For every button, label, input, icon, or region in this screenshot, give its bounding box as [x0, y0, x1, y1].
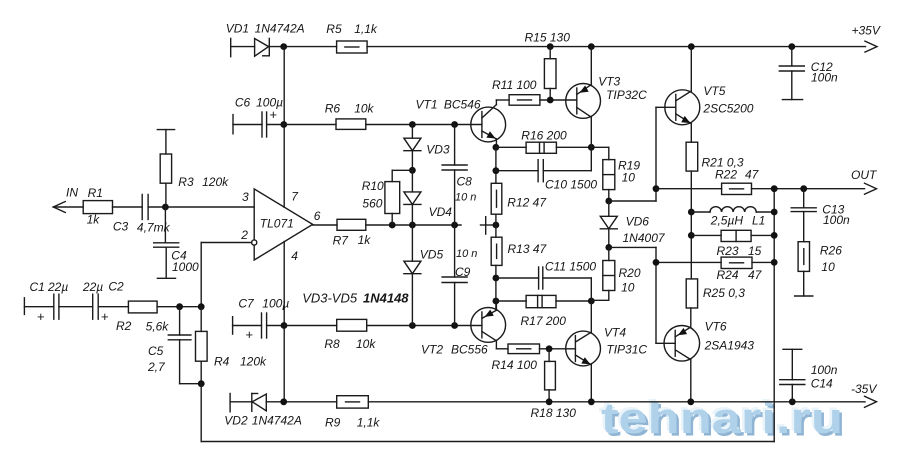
transistor VT6 2SA1943 — [664, 308, 700, 402]
connector stub to R12/R13 midpoint — [481, 217, 496, 234]
svg-text:7: 7 — [291, 190, 299, 204]
svg-text:47: 47 — [745, 168, 760, 182]
node pin4 column rail — [280, 398, 287, 405]
svg-text:C10 1500: C10 1500 — [545, 178, 597, 192]
svg-text:VD2: VD2 — [224, 414, 248, 428]
resistor R6 10k — [284, 119, 482, 129]
node VT1 emitter / R16 — [493, 144, 500, 151]
svg-text:1000: 1000 — [172, 260, 199, 274]
svg-text:10: 10 — [622, 171, 636, 185]
node R15 top — [547, 43, 554, 50]
svg-text:1N4007: 1N4007 — [623, 231, 666, 245]
svg-text:100n: 100n — [811, 71, 838, 85]
svg-text:1N4148: 1N4148 — [363, 291, 409, 306]
svg-text:1N4742A: 1N4742A — [252, 414, 302, 428]
svg-text:C11 1500: C11 1500 — [545, 260, 596, 274]
svg-text:R13 47: R13 47 — [508, 242, 548, 256]
svg-text:R14 100: R14 100 — [492, 358, 538, 372]
zener diode VD2 1N4742A — [230, 394, 266, 412]
node OUT/C13 — [771, 185, 778, 192]
svg-text:VT3: VT3 — [598, 75, 620, 89]
resistor R18 130 — [545, 349, 556, 402]
wire pin 2 to feedback node — [201, 243, 251, 307]
svg-text:TIP31C: TIP31C — [606, 343, 647, 357]
svg-text:IN: IN — [66, 186, 78, 200]
+35V terminal arrow — [865, 41, 877, 52]
resistor R2 5,6k — [128, 301, 201, 313]
node C9 bottom — [451, 322, 458, 329]
node VD6 bottom / VT6 base — [605, 244, 612, 251]
svg-text:10 n: 10 n — [455, 192, 476, 204]
node C14 rail — [789, 398, 796, 405]
node VD4/VD5 junction — [409, 222, 416, 229]
node C7/R8 junction — [281, 322, 288, 329]
node R11/R15/VT3 base — [547, 97, 554, 104]
svg-text:R8: R8 — [324, 337, 340, 351]
svg-text:R24: R24 — [717, 268, 739, 282]
svg-text:2,7: 2,7 — [147, 360, 166, 374]
node C5 top — [176, 303, 183, 310]
resistor R5 1,1k — [337, 41, 368, 53]
capacitor C7 100u — [233, 313, 284, 338]
svg-text:10 n: 10 n — [456, 248, 477, 260]
resistor R16 200 — [496, 142, 591, 153]
node R12/R13 midpoint — [493, 222, 500, 229]
svg-text:100n: 100n — [823, 213, 850, 227]
svg-text:R10: R10 — [362, 179, 384, 193]
svg-text:R17 200: R17 200 — [521, 314, 567, 328]
svg-text:3: 3 — [242, 190, 249, 204]
capacitor C10 1500 — [496, 147, 591, 181]
node VT6 collector rail — [687, 398, 694, 405]
svg-text:C3: C3 — [113, 220, 129, 234]
resistor R19 10 — [591, 147, 615, 201]
transistor VT1 BC546 — [471, 100, 509, 147]
resistor R21 0,3 — [686, 142, 698, 279]
node VD5 bottom — [409, 322, 416, 329]
svg-text:C14: C14 — [811, 377, 833, 391]
node R14/R18/VT4 base — [546, 345, 553, 352]
svg-text:10k: 10k — [356, 337, 376, 351]
capacitor C1 22u — [24, 294, 59, 319]
svg-text:VD1: VD1 — [226, 22, 249, 36]
svg-text:VD4: VD4 — [429, 205, 453, 219]
node R24 left / VT6 base — [653, 259, 660, 266]
svg-text:C2: C2 — [108, 280, 124, 294]
node VT4 emitter rail — [588, 398, 595, 405]
transistor VT4 TIP31C — [566, 301, 601, 402]
node C10 left — [493, 167, 500, 174]
svg-text:VT4: VT4 — [604, 326, 626, 340]
transistor VT2 BC556 — [471, 301, 508, 349]
wire pin 7 to +rail — [283, 47, 285, 208]
svg-text:C8: C8 — [457, 175, 473, 189]
wire — [113, 206, 143, 208]
svg-text:BC546: BC546 — [444, 98, 481, 112]
resistor R10 560 — [385, 170, 413, 225]
-35V terminal arrow — [865, 396, 877, 407]
svg-text:R15 130: R15 130 — [525, 31, 571, 45]
svg-text:R22: R22 — [715, 168, 737, 182]
resistor R3 120k — [157, 130, 174, 207]
svg-text:C1: C1 — [30, 280, 45, 294]
node VD1/R5 junction — [280, 43, 287, 50]
watermark tehnari.ru — [599, 392, 846, 446]
wire pin 4 to -rail — [283, 242, 285, 402]
svg-text:4,7mk: 4,7mk — [137, 221, 171, 235]
capacitor C4 1000 — [154, 207, 179, 278]
node C12 rail — [788, 43, 795, 50]
transistor VT5 2SC5200 — [665, 47, 700, 143]
resistor R23 15 — [691, 230, 774, 241]
svg-text:R2: R2 — [116, 319, 132, 333]
svg-text:R9: R9 — [325, 416, 341, 430]
resistor R11 100 — [509, 95, 577, 106]
zener diode VD1 1N4742A — [231, 38, 270, 56]
svg-text:BC556: BC556 — [451, 343, 488, 357]
node VD3/VD4 junction — [409, 167, 416, 174]
svg-text:10: 10 — [821, 260, 835, 274]
capacitor C12 100n — [779, 47, 804, 100]
svg-text:R7: R7 — [333, 234, 350, 248]
capacitor C5 2,7 — [168, 307, 201, 384]
node VT3 emitter rail — [588, 43, 595, 50]
svg-text:100n: 100n — [811, 363, 838, 377]
svg-text:TIP32C: TIP32C — [606, 88, 647, 102]
resistor R7 1k — [313, 219, 461, 230]
svg-text:6: 6 — [314, 209, 321, 223]
node R10 bottom — [389, 222, 396, 229]
inductor L1 2,5uH — [691, 207, 774, 212]
svg-text:R3: R3 — [178, 175, 194, 189]
node VT5 base / OUT row — [653, 185, 660, 192]
svg-text:C5: C5 — [148, 344, 164, 358]
resistor R20 10 — [591, 247, 615, 300]
svg-text:+35V: +35V — [852, 24, 881, 38]
node R18 rail — [546, 398, 553, 405]
resistor R1 1k — [83, 201, 112, 214]
svg-text:15: 15 — [748, 244, 762, 258]
svg-text:L1: L1 — [752, 214, 765, 228]
node VT2 emitter / R17 — [493, 298, 500, 305]
svg-text:R4: R4 — [214, 355, 230, 369]
capacitor C8 10n — [442, 125, 467, 226]
svg-text:1k: 1k — [358, 233, 372, 247]
svg-text:+: + — [37, 309, 45, 324]
resistor R13 47 — [491, 225, 502, 310]
resistor R17 200 — [496, 295, 591, 307]
svg-text:R11 100: R11 100 — [492, 78, 537, 92]
node R23 left — [688, 232, 695, 239]
svg-text:VT6: VT6 — [705, 320, 727, 334]
node R2/R4/pin2 — [198, 303, 205, 310]
feedback wire OUT to input stage — [201, 189, 774, 442]
wire to pin 3 — [148, 206, 254, 208]
svg-text:2SA1943: 2SA1943 — [704, 339, 755, 353]
svg-text:VD6: VD6 — [626, 215, 650, 229]
svg-text:VT5: VT5 — [703, 84, 725, 98]
svg-text:VD5: VD5 — [420, 248, 444, 262]
capacitor C6 100u — [233, 112, 284, 137]
svg-text:R5: R5 — [326, 22, 342, 36]
svg-text:C6: C6 — [235, 96, 251, 110]
svg-text:120k: 120k — [202, 175, 229, 189]
svg-text:100µ: 100µ — [262, 297, 289, 311]
svg-text:R1: R1 — [88, 186, 103, 200]
capacitor C3 4,7mk — [142, 195, 148, 220]
svg-text:+: + — [101, 309, 109, 324]
svg-text:10: 10 — [621, 281, 635, 295]
capacitor C11 1500 — [496, 267, 591, 301]
svg-text:VD3-VD5: VD3-VD5 — [302, 291, 358, 306]
node VT5 collector rail — [688, 43, 695, 50]
diode VD6 1N4007 — [600, 201, 617, 247]
wire — [269, 46, 865, 48]
svg-text:C9: C9 — [455, 265, 471, 279]
svg-text:2: 2 — [240, 228, 248, 242]
resistor R9 1,1k — [337, 396, 369, 408]
resistor R26 10 — [795, 242, 813, 296]
svg-text:TL071: TL071 — [260, 217, 294, 231]
svg-text:R20: R20 — [619, 266, 641, 280]
node C11 left — [493, 275, 500, 282]
wire — [609, 189, 656, 201]
svg-text:VT2: VT2 — [421, 343, 443, 357]
wire VT6 base — [656, 262, 675, 343]
transistor VT3 TIP32C — [566, 47, 601, 148]
svg-text:VD3: VD3 — [426, 143, 450, 157]
svg-text:R18 130: R18 130 — [531, 406, 577, 420]
node C13 top — [800, 185, 807, 192]
diode VD3 1N4148 — [404, 125, 421, 171]
svg-text:47: 47 — [748, 268, 763, 282]
svg-text:1,1k: 1,1k — [354, 22, 378, 36]
wire VT5 base — [656, 107, 676, 188]
resistor R15 130 — [544, 47, 556, 100]
node R3/C4 junction — [162, 204, 169, 211]
resistor R12 47 — [491, 147, 502, 225]
svg-text:1k: 1k — [87, 213, 101, 227]
OUT terminal arrow — [865, 183, 877, 194]
svg-text:R26: R26 — [820, 244, 842, 258]
input terminal IN — [53, 202, 83, 213]
resistor R8 10k — [284, 319, 482, 331]
node R23 right — [771, 232, 778, 239]
svg-text:+: + — [270, 107, 278, 122]
svg-text:R16 200: R16 200 — [521, 129, 567, 143]
resistor R25 0,3 — [686, 279, 697, 308]
resistor R24 47 — [656, 257, 774, 268]
svg-text:2,5µH: 2,5µH — [710, 214, 744, 228]
capacitor C9 10n — [442, 225, 467, 326]
node R17/C11/VT4 coll — [588, 298, 595, 305]
node C8/C9 junction — [451, 222, 458, 229]
svg-text:OUT: OUT — [851, 168, 878, 182]
svg-text:-35V: -35V — [851, 382, 877, 396]
svg-text:120k: 120k — [240, 355, 267, 369]
svg-text:R6: R6 — [325, 102, 341, 116]
svg-text:R12 47: R12 47 — [507, 196, 547, 210]
svg-text:22µ: 22µ — [82, 280, 103, 294]
svg-text:5,6k: 5,6k — [146, 320, 170, 334]
op-amp U1 TL071 — [252, 189, 313, 260]
capacitor C13 100n — [791, 189, 816, 242]
node C6/R6 junction — [280, 121, 287, 128]
svg-text:2SC5200: 2SC5200 — [702, 102, 753, 116]
svg-text:+: + — [246, 327, 254, 342]
svg-text:22µ: 22µ — [47, 280, 68, 294]
resistor R4 120k — [196, 307, 208, 384]
node R19 bottom / VT5 base — [605, 198, 612, 205]
svg-text:1,1k: 1,1k — [357, 416, 381, 430]
svg-text:R23: R23 — [717, 244, 739, 258]
resistor R14 100 — [508, 344, 575, 354]
capacitor C14 100n — [780, 349, 805, 402]
diode VD5 1N4148 — [404, 225, 421, 326]
output row wire — [656, 188, 865, 190]
svg-text:560: 560 — [362, 197, 382, 211]
svg-text:VT1: VT1 — [416, 98, 438, 112]
node R24 right — [771, 259, 778, 266]
capacitor C2 22u — [59, 294, 128, 319]
node VD3 top — [409, 121, 416, 128]
svg-text:1N4742A: 1N4742A — [255, 22, 305, 36]
resistor R22 47 — [722, 183, 752, 194]
node L1 right — [771, 209, 778, 216]
svg-text:10k: 10k — [354, 102, 374, 116]
svg-text:R25 0,3: R25 0,3 — [703, 286, 745, 300]
diode VD4 1N4148 — [404, 170, 421, 225]
power rail -35V — [266, 401, 865, 403]
wire — [609, 247, 656, 262]
node R16/C10/VT3 coll — [588, 144, 595, 151]
wire — [200, 384, 202, 442]
svg-text:C7: C7 — [238, 297, 255, 311]
node feedback — [198, 380, 205, 387]
svg-text:4: 4 — [291, 249, 298, 263]
node L1 left — [688, 209, 695, 216]
node C8 top — [451, 121, 458, 128]
